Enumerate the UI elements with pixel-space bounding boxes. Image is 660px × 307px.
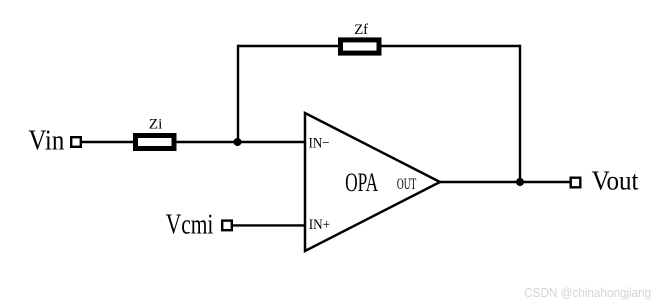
svg-text:CSDN @chinahongjiang: CSDN @chinahongjiang <box>524 286 651 300</box>
svg-text:IN+: IN+ <box>309 217 330 233</box>
svg-text:Vin: Vin <box>28 126 64 157</box>
svg-text:Zf: Zf <box>354 22 368 38</box>
svg-text:OPA: OPA <box>345 168 378 197</box>
svg-text:Zi: Zi <box>149 117 163 133</box>
svg-text:Vout: Vout <box>592 166 639 196</box>
svg-text:IN−: IN− <box>309 136 330 152</box>
svg-text:OUT: OUT <box>397 176 417 193</box>
svg-text:Vcmi: Vcmi <box>166 209 214 240</box>
